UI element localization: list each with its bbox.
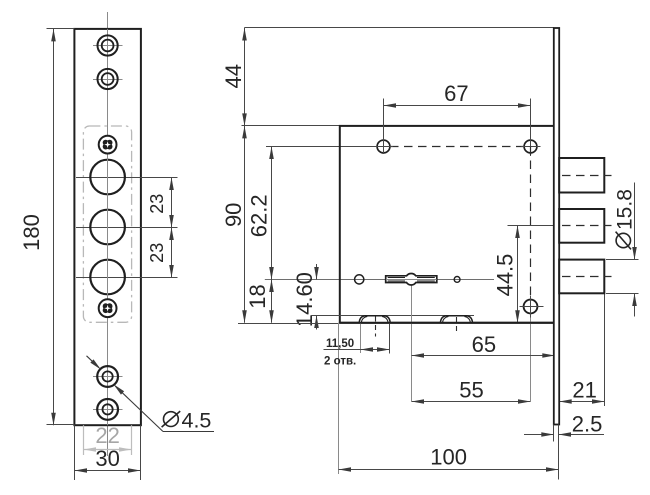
- small hole P1: [97, 366, 118, 387]
- svg-text:62.2: 62.2: [247, 194, 272, 237]
- dimension 21 line: [559, 401, 604, 403]
- dimension 180 line: [53, 29, 55, 425]
- svg-text:100: 100: [430, 445, 467, 470]
- dimension 23 lines: [171, 178, 173, 278]
- dim 11.50 ext lines: [360, 324, 362, 353]
- svg-text:65: 65: [472, 332, 496, 357]
- bottom-right hole crosshair: [520, 306, 544, 308]
- pointer arrow at hole P1 upper-left: [87, 356, 100, 368]
- faceplate left edge ext down: [553, 425, 555, 442]
- tab top ext line (14.60 ref): [311, 315, 475, 317]
- dimension 90 line: [244, 126, 246, 323]
- key slot (double-bit keyway): [386, 273, 437, 285]
- bolt 2 centerline solid ext: [508, 225, 555, 227]
- svg-text:44: 44: [221, 64, 246, 88]
- bolt 2: [559, 209, 604, 243]
- bolt 1: [559, 158, 604, 193]
- svg-text:2.5: 2.5: [572, 412, 603, 437]
- key slot centerline vertical: [411, 279, 413, 401]
- label diameter 4.5: [162, 409, 212, 433]
- top-left hole: [377, 140, 390, 153]
- svg-text:22: 22: [95, 423, 119, 448]
- hole ext line vertical left: [383, 99, 385, 155]
- faceplate right edge ext down: [558, 425, 560, 480]
- big circle B3 crosshair / ext line: [76, 277, 178, 279]
- lock body outline: [340, 126, 555, 323]
- hole H2 crosshair: [93, 79, 123, 81]
- body top ext line: [242, 125, 340, 127]
- bolt 1 dashed centerline: [562, 175, 612, 177]
- centerline redraw over circles: [107, 126, 109, 322]
- keyhole tiny circle right: [454, 277, 460, 283]
- dimension 18 line: [271, 280, 273, 323]
- svg-text:23: 23: [147, 243, 167, 263]
- big circle B2: [90, 210, 125, 245]
- big circle B1 crosshair / ext line for 23 dim: [76, 177, 178, 179]
- faceplate side view: [554, 28, 559, 425]
- dimension 30 line: [75, 470, 141, 472]
- dimension 14.60 line: [316, 264, 318, 280]
- svg-text:180: 180: [19, 214, 44, 251]
- dimension 65 line: [412, 355, 555, 357]
- dashed centerline between top holes: [390, 146, 524, 148]
- gray dimension 22 ext lines: [83, 425, 85, 455]
- hole line ext left: [266, 146, 384, 148]
- tab 2 (stamped bump): [440, 316, 472, 323]
- centerline through key slot: [386, 279, 437, 281]
- svg-text:2 отв.: 2 отв.: [324, 356, 356, 368]
- dimension 30 ext lines: [74, 425, 76, 480]
- dimension text d15.8: [614, 189, 637, 249]
- tab 1 (stamped bump): [359, 316, 390, 323]
- small hole P2 crosshair: [93, 409, 123, 411]
- screw hole S2: [99, 299, 117, 317]
- big circle B2 crosshair / ext line: [76, 227, 178, 229]
- dimension 180 ext line top: [47, 28, 75, 30]
- svg-text:15.8: 15.8: [614, 189, 637, 230]
- svg-text:30: 30: [95, 446, 119, 471]
- screw hole S1: [99, 136, 117, 154]
- hole ext line vertical right: [530, 99, 532, 142]
- body left edge ext down (for 100): [338, 323, 340, 474]
- top-right hole: [524, 140, 537, 153]
- bolt 3: [559, 260, 604, 294]
- small hole P2: [97, 399, 118, 420]
- svg-text:11,50: 11,50: [326, 338, 354, 350]
- dimension 55 line: [412, 401, 531, 403]
- body bottom edge redraw: [340, 322, 555, 324]
- dimension 62.2 line: [271, 147, 273, 280]
- dimension 2.5 lines: [524, 434, 554, 436]
- big circle B3: [90, 260, 125, 295]
- dimension 44 line: [244, 28, 246, 126]
- tab 2 dashed center: [456, 317, 458, 331]
- big circle B1: [90, 160, 125, 195]
- cylinder zone dash-dot box: [83, 126, 131, 322]
- dimension 11.50 line: [324, 349, 390, 351]
- bolt 3 dashed centerline: [562, 276, 612, 278]
- centerline redraw inside plate: [107, 29, 109, 425]
- keyhole line ext left: [265, 279, 494, 281]
- body bottom ext line left: [238, 323, 340, 325]
- svg-text:90: 90: [221, 203, 246, 227]
- centerline of faceplate: [107, 12, 109, 456]
- svg-text:4.5: 4.5: [182, 409, 212, 433]
- faceplate front outline: [74, 29, 140, 425]
- keyhole small circle left: [355, 275, 364, 284]
- dimension 44.5 line: [517, 226, 519, 323]
- dashed vertical centerline right holes: [530, 147, 532, 307]
- svg-text:23: 23: [147, 194, 167, 214]
- svg-text:67: 67: [444, 81, 468, 106]
- hole H1 (top): [98, 35, 118, 55]
- dimension 180 ext line bottom: [47, 424, 75, 426]
- hole H2: [98, 69, 118, 89]
- tab 1 dashed center: [375, 317, 377, 337]
- svg-text:14.60: 14.60: [292, 272, 317, 327]
- dimension 100 line: [339, 469, 559, 471]
- svg-text:18: 18: [245, 284, 270, 308]
- leader line for diameter 4.5: [115, 386, 163, 432]
- hole H1 crosshair: [93, 45, 123, 47]
- dimension d15.8 lines: [634, 183, 636, 260]
- bottom-right hole: [524, 300, 538, 314]
- bolt 2 dashed centerline: [562, 225, 612, 227]
- svg-text:55: 55: [459, 378, 483, 403]
- small hole P1 crosshair: [93, 376, 123, 378]
- bolt diameter ext lines: [606, 259, 639, 261]
- svg-text:44.5: 44.5: [492, 254, 517, 297]
- gray dimension 22 line: [84, 449, 132, 451]
- dimension 67 line: [384, 105, 531, 107]
- bolt right edge ext line: [604, 293, 606, 406]
- top ext line (faceplate top extended): [245, 27, 554, 29]
- svg-text:21: 21: [572, 378, 596, 403]
